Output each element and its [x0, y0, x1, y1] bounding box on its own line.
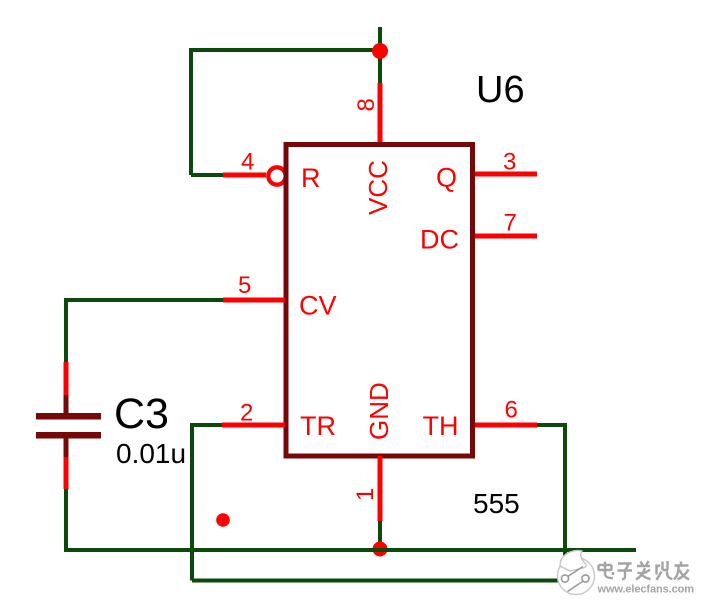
svg-text:555: 555: [473, 488, 520, 519]
wire bottom rail 2: [192, 579, 565, 583]
wire TH horizontal: [537, 423, 565, 427]
capacitor C3 bottom plate: [36, 432, 101, 439]
svg-text:TH: TH: [423, 411, 459, 441]
watermark logo disc: [558, 550, 595, 594]
wire CV left vertical down to C3: [64, 298, 68, 362]
capacitor C3 top pin stub: [64, 395, 69, 413]
svg-text:6: 6: [505, 397, 518, 424]
wire TR horizontal: [190, 423, 222, 427]
wire top stub above junction: [378, 27, 382, 52]
svg-text:7: 7: [504, 210, 517, 237]
svg-text:3: 3: [503, 149, 516, 176]
svg-text:CV: CV: [299, 291, 337, 321]
wire left vertical from top to pin 4 row: [189, 48, 193, 175]
pin 1 lead: [378, 456, 383, 521]
svg-text:4: 4: [241, 149, 254, 176]
svg-text:U6: U6: [476, 69, 525, 111]
wire bottom rail 1: [66, 548, 636, 552]
capacitor C3 bottom pin stub: [64, 438, 69, 457]
wire top horizontal VCC net: [189, 48, 380, 52]
pin 8 lead: [378, 83, 383, 145]
IC U6 body: [286, 145, 473, 457]
pin 7 lead: [475, 234, 537, 239]
wire GND down to rail: [378, 521, 382, 550]
pin 6 lead: [475, 423, 537, 428]
capacitor C3 top lead red: [64, 362, 69, 396]
pin 2 lead: [222, 423, 285, 428]
watermark logo trace and pads: [561, 567, 589, 592]
svg-text:GND: GND: [364, 382, 394, 440]
svg-text:TR: TR: [300, 411, 336, 441]
watermark text 电子发烧友: [599, 561, 690, 580]
svg-text:2: 2: [240, 400, 253, 427]
svg-text:1: 1: [352, 488, 379, 501]
junction dot bottom GND: [373, 542, 388, 557]
svg-text:R: R: [301, 163, 321, 193]
wire TR vertical down to bottom rail: [190, 423, 194, 581]
svg-text:C3: C3: [114, 390, 169, 438]
svg-text:VCC: VCC: [363, 160, 393, 215]
wire from junction down to pin 8: [378, 50, 382, 83]
svg-text:5: 5: [238, 272, 251, 299]
junction dot top VCC: [372, 43, 388, 59]
floating junction dot: [216, 513, 230, 527]
pin 3 lead: [475, 172, 537, 177]
wire TH vertical down to lower rail: [563, 423, 567, 581]
pin 4 inverting bubble: [268, 167, 285, 184]
svg-text:Q: Q: [436, 163, 457, 193]
wire horizontal into pin 4: [191, 173, 223, 177]
svg-text:DC: DC: [420, 225, 459, 255]
wire C3 bottom vertical to rail: [64, 489, 68, 552]
pin 4 lead: [223, 173, 266, 178]
capacitor C3 top plate: [36, 413, 101, 420]
capacitor C3 bottom lead red: [64, 457, 69, 489]
pin 5 lead: [223, 298, 285, 303]
svg-text:8: 8: [353, 98, 380, 111]
svg-text:0.01u: 0.01u: [116, 438, 186, 469]
svg-text:www.elecfans.com: www.elecfans.com: [597, 584, 695, 596]
wire CV horizontal: [66, 298, 223, 302]
